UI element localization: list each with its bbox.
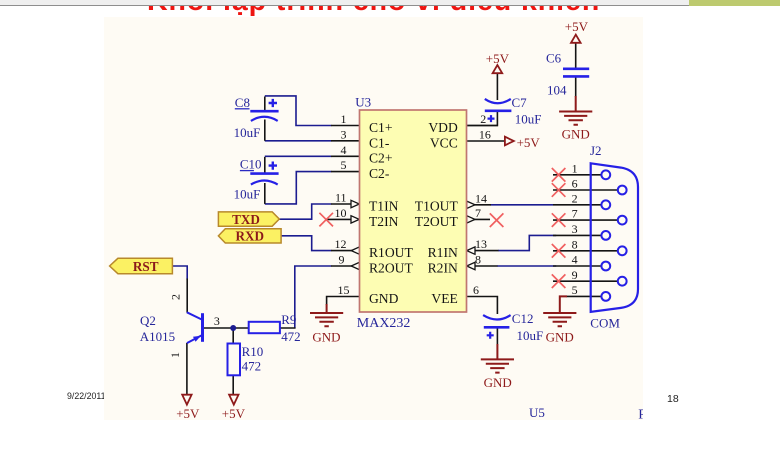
node junction Q2 base / R9 / R10 <box>230 325 236 331</box>
svg-text:15: 15 <box>338 283 350 297</box>
+5V power symbol below Q2 emitter <box>182 395 191 405</box>
resistor R9 <box>249 312 301 344</box>
+5V power symbol above C7 <box>493 65 503 73</box>
svg-text:4: 4 <box>572 253 578 267</box>
U3 pin 2 stub <box>466 125 497 127</box>
ground symbol under U3 pin 15 <box>310 304 343 326</box>
capacitor C8 <box>234 95 279 140</box>
schematic panel <box>104 17 643 420</box>
svg-text:VDD: VDD <box>428 120 458 135</box>
svg-text:10uF: 10uF <box>516 328 543 343</box>
J2 pin 2 circle <box>601 200 610 209</box>
capacitor C7 <box>485 95 542 127</box>
U3 pin 8 stub <box>466 265 497 267</box>
svg-text:R2IN: R2IN <box>428 260 458 275</box>
svg-text:R9: R9 <box>281 312 296 327</box>
svg-text:GND: GND <box>484 375 512 390</box>
svg-text:472: 472 <box>281 329 300 344</box>
svg-text:C1+: C1+ <box>369 120 393 135</box>
svg-text:C2-: C2- <box>369 166 390 181</box>
footer date <box>67 391 105 401</box>
pin 10 input arrow <box>351 216 359 223</box>
svg-text:9: 9 <box>338 253 344 267</box>
svg-text:12: 12 <box>335 237 347 251</box>
J2 pin 5 circle <box>601 292 610 301</box>
transistor Q2 <box>140 294 220 358</box>
pin 7 output arrow <box>467 216 475 223</box>
op-amp U3 MAX232 body <box>359 110 466 312</box>
header olive bar <box>689 0 780 6</box>
svg-text:C2+: C2+ <box>369 151 393 166</box>
J2 pin 1 stub <box>553 174 601 176</box>
svg-text:1: 1 <box>168 352 182 358</box>
pin 11 input arrow <box>351 200 359 207</box>
svg-text:7: 7 <box>475 206 481 220</box>
wire U3 pin 6 VEE to C12 <box>466 296 497 313</box>
svg-text:C6: C6 <box>546 50 562 65</box>
port TXD <box>218 212 279 227</box>
svg-text:VEE: VEE <box>431 291 457 306</box>
J2 pin 2 stub <box>553 204 601 206</box>
svg-text:3: 3 <box>214 314 220 328</box>
svg-text:5: 5 <box>572 283 578 297</box>
svg-text:+5V: +5V <box>176 406 200 420</box>
pin 14 output arrow <box>467 201 475 208</box>
svg-text:TXD: TXD <box>232 212 260 227</box>
ground symbol under C6 <box>559 96 592 125</box>
svg-text:8: 8 <box>475 253 481 267</box>
U3 pin 4 stub <box>331 155 359 157</box>
svg-text:14: 14 <box>475 191 487 205</box>
U3 pin 11 stub <box>331 203 359 205</box>
svg-text:T2OUT: T2OUT <box>415 214 459 229</box>
no-connect X on U3 pin 7 <box>490 213 504 227</box>
wire U3 pin 13 R1IN to J2 pin 3 <box>498 235 556 250</box>
J2 pin 7 stub <box>553 219 618 221</box>
svg-text:+5V: +5V <box>486 51 510 66</box>
svg-text:GND: GND <box>369 291 399 306</box>
wire TXD to U3 pin 11 T1IN <box>279 204 331 219</box>
svg-text:T1IN: T1IN <box>369 198 399 213</box>
svg-text:C1-: C1- <box>369 135 390 150</box>
ground symbol under C12 <box>481 344 514 373</box>
svg-text:1: 1 <box>340 112 346 126</box>
svg-text:11: 11 <box>335 191 347 205</box>
svg-text:C10: C10 <box>240 157 262 172</box>
svg-text:2: 2 <box>572 191 578 205</box>
no-connect X on J2 pin 9 <box>552 274 566 288</box>
J2 pin 8 stub <box>553 250 618 252</box>
svg-text:10: 10 <box>335 206 347 220</box>
capacitor C6 <box>546 50 589 97</box>
wire R10 top lead <box>232 328 234 343</box>
svg-text:MAX232: MAX232 <box>357 316 411 331</box>
+5V power arrow at U3 pin 16 <box>505 137 514 146</box>
wire Q2 collector lead <box>186 278 188 312</box>
svg-text:3: 3 <box>340 128 346 142</box>
no-connect X on J2 pin 7 <box>552 213 566 227</box>
J2 pin 6 circle <box>618 186 627 195</box>
wire C8 bottom to U3 pin 3 <box>265 140 332 142</box>
J2 pin 6 stub <box>553 189 618 191</box>
svg-text:A1015: A1015 <box>140 329 175 344</box>
no-connect X on J2 pin 6 <box>552 183 566 197</box>
wire U3 pin 16 VCC to +5V arrow <box>466 140 504 142</box>
U3 pin 10 stub <box>326 218 359 220</box>
capacitor C10 leads <box>264 157 266 204</box>
slide title (top-cropped) <box>147 0 600 18</box>
svg-text:U5: U5 <box>529 405 545 420</box>
schematic background <box>104 17 644 420</box>
header rule <box>0 5 689 7</box>
svg-text:T1OUT: T1OUT <box>415 198 459 213</box>
J2 pin 9 stub <box>553 280 618 282</box>
U3 pin 5 stub <box>331 171 359 173</box>
J2 pin 4 circle <box>601 262 610 271</box>
page number 18 <box>667 393 679 405</box>
wire RXD to U3 pin 12 R1OUT <box>281 236 331 251</box>
no-connect X on J2 pin 1 <box>552 168 566 182</box>
svg-text:3: 3 <box>572 222 578 236</box>
svg-text:RXD: RXD <box>236 229 265 244</box>
+5V power symbol below R10 <box>229 395 238 405</box>
J2 pin 1 circle <box>601 170 610 179</box>
J2 pin 3 stub <box>553 234 601 236</box>
U3 pin 13 stub <box>466 250 498 252</box>
svg-text:2: 2 <box>169 294 183 300</box>
wire C8 top plate to U3 pin 1 <box>265 96 332 126</box>
svg-text:R2OUT: R2OUT <box>369 260 413 275</box>
svg-text:472: 472 <box>242 359 261 374</box>
svg-text:C12: C12 <box>512 311 534 326</box>
wire C10 bottom to U3 pin 5 <box>265 172 332 204</box>
svg-text:10uF: 10uF <box>234 125 261 140</box>
J2 pin 4 stub <box>553 265 601 267</box>
svg-text:GND: GND <box>546 329 574 344</box>
svg-text:13: 13 <box>475 237 487 251</box>
U3 pin 1 stub <box>331 125 359 127</box>
svg-text:R1IN: R1IN <box>428 245 458 260</box>
svg-text:6: 6 <box>572 177 578 191</box>
svg-text:4: 4 <box>340 143 346 157</box>
J2 pin 7 circle <box>618 216 627 225</box>
svg-text:F: F <box>638 407 643 420</box>
svg-text:16: 16 <box>479 128 491 142</box>
pin 12 output arrow <box>351 247 359 254</box>
wire C6 +5V lead <box>575 43 577 69</box>
svg-text:Q2: Q2 <box>140 313 156 328</box>
U3 pin 14 stub <box>466 204 490 206</box>
svg-text:6: 6 <box>473 283 479 297</box>
svg-text:R1OUT: R1OUT <box>369 245 413 260</box>
svg-text:10uF: 10uF <box>234 187 261 202</box>
wire C7 to U3 pin 2 VDD <box>466 111 497 126</box>
svg-text:R10: R10 <box>242 344 264 359</box>
J2 pin 9 circle <box>618 277 627 286</box>
header grey bar <box>0 0 689 5</box>
svg-text:GND: GND <box>562 127 590 142</box>
no-connect X on J2 pin 8 <box>552 244 566 258</box>
+5V power symbol above C6 <box>571 35 581 43</box>
svg-text:5: 5 <box>340 158 346 172</box>
pin 8 input arrow <box>467 262 475 269</box>
wire C7 +5V lead <box>496 73 498 100</box>
pin 13 input arrow <box>467 247 475 254</box>
wire U3 pin 8 R2IN to J2 pin 4 <box>497 265 556 267</box>
port RXD <box>218 229 281 244</box>
svg-text:+5V: +5V <box>222 406 246 420</box>
resistor R10 <box>227 343 263 375</box>
J2 pin 8 circle <box>618 246 627 255</box>
ground symbol under J2 pin 5 <box>543 296 576 326</box>
U3 pin 12 stub <box>331 250 359 252</box>
wire C12 to GND <box>496 327 498 344</box>
U3 pin 7 stub <box>466 218 489 220</box>
U3 pin 3 stub <box>331 140 359 142</box>
J2 pin 5 stub <box>566 295 601 297</box>
connector J2 DB9 outline <box>591 163 638 312</box>
svg-text:T2IN: T2IN <box>369 214 399 229</box>
svg-text:J2: J2 <box>590 143 602 158</box>
wire U3 pin 14 T1OUT to J2 pin 2 <box>490 204 552 206</box>
svg-text:COM: COM <box>590 316 620 331</box>
svg-text:C7: C7 <box>511 95 527 110</box>
wire U3 pin 15 GND <box>327 296 360 304</box>
svg-text:7: 7 <box>572 207 578 221</box>
port RST <box>110 258 173 274</box>
J2 pin 3 circle <box>601 231 610 240</box>
pin 9 output arrow <box>351 262 359 269</box>
svg-text:+5V: +5V <box>517 135 541 150</box>
wire C10 top plate to U3 pin 4 <box>265 155 332 157</box>
svg-text:GND: GND <box>312 329 340 344</box>
svg-text:+5V: +5V <box>565 19 589 34</box>
capacitor C10 <box>234 157 279 202</box>
wire RST to Q2 collector <box>172 266 187 279</box>
wire U3 pin 9 R2OUT to R9 <box>295 266 332 328</box>
svg-text:C8: C8 <box>235 95 250 110</box>
U3 pin 9 stub <box>331 265 359 267</box>
wire Q2 base to R9 <box>204 327 249 329</box>
svg-text:9: 9 <box>572 268 578 282</box>
svg-text:1: 1 <box>572 161 578 175</box>
svg-text:104: 104 <box>547 82 567 97</box>
svg-text:U3: U3 <box>355 94 371 109</box>
no-connect X on U3 pin 10 <box>319 213 333 227</box>
wire R10 bottom to +5V <box>232 375 234 394</box>
svg-text:10uF: 10uF <box>515 112 542 127</box>
capacitor C8 leads <box>264 97 266 141</box>
svg-text:2: 2 <box>480 112 486 126</box>
capacitor C12 <box>483 311 543 343</box>
wire Q2 emitter to +5V <box>186 343 188 395</box>
wire R9 right lead <box>280 327 296 329</box>
svg-text:8: 8 <box>572 237 578 251</box>
svg-text:VCC: VCC <box>430 135 458 150</box>
wire C6 to GND <box>575 76 577 97</box>
svg-text:RST: RST <box>133 259 159 274</box>
